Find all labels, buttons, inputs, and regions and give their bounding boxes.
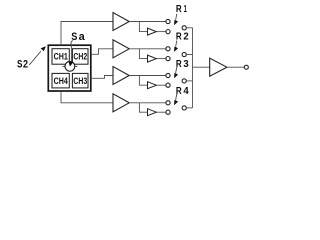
switch S1 lower contact (166, 30, 170, 34)
channel box CH4 (52, 73, 69, 88)
wire feed channel 2 (91, 49, 113, 55)
selector switch Sa outer box (48, 45, 91, 91)
switch S2a upper contact (166, 47, 170, 51)
wire A7 output (156, 84, 166, 86)
wire A6 output (156, 58, 166, 60)
output terminal (244, 65, 248, 69)
svg-text:4: 4 (183, 86, 189, 97)
switch S4 common contact (182, 106, 186, 110)
wire feed channel 3 (91, 76, 113, 79)
buffer amp A3 (113, 67, 129, 85)
svg-text:CH3: CH3 (73, 76, 87, 86)
channel box CH1 (52, 49, 69, 64)
wire S1 common to bus (186, 27, 192, 29)
switch S2a lower contact (166, 57, 170, 61)
svg-text:2: 2 (183, 32, 189, 43)
wire A3 output (129, 75, 166, 77)
wire S3 common to bus (186, 80, 192, 82)
buffer amp A6 (148, 55, 157, 62)
output amp U1 (210, 58, 227, 76)
svg-text:a: a (79, 31, 86, 43)
svg-text:CH2: CH2 (73, 52, 87, 62)
buffer amp A5 (148, 28, 157, 35)
buffer amp A8 (148, 109, 157, 116)
switch S3 upper contact (166, 73, 170, 77)
wire feed channel 1 (61, 22, 113, 46)
wire branch to A8 (139, 103, 147, 112)
Sa leader (71, 40, 73, 45)
rotary wiper right stub (75, 65, 78, 67)
buffer amp A4 (113, 94, 129, 112)
wire A4 output (129, 102, 166, 104)
wire branch to A6 (139, 49, 147, 59)
wire bus to output amp (193, 66, 210, 68)
wire A8 output (156, 111, 166, 113)
svg-text:1: 1 (184, 4, 187, 15)
wire feed channel 4 (61, 91, 113, 103)
svg-text:R: R (176, 4, 182, 15)
rotary wiper left stub (62, 65, 65, 67)
rotary wiper circle (65, 61, 75, 71)
rotary wiper pointer (69, 62, 73, 67)
wire branch to A5 (139, 22, 147, 32)
buffer amp A2 (113, 40, 129, 58)
wire A5 output (156, 31, 166, 33)
wire output (227, 66, 244, 68)
buffer amp A7 (148, 82, 157, 89)
switch S1 common contact (182, 26, 186, 30)
R1 leader arrow (174, 14, 178, 25)
wire S2a common to bus (186, 54, 192, 56)
channel box CH2 (72, 49, 88, 64)
svg-text:2: 2 (23, 59, 28, 71)
switch S1 upper contact (166, 19, 170, 23)
rotary wiper input stub (70, 45, 72, 61)
channel box CH3 (72, 73, 88, 88)
bus wire (192, 28, 194, 108)
svg-text:3: 3 (183, 59, 189, 70)
switch S2a common contact (182, 52, 186, 56)
svg-text:CH4: CH4 (54, 76, 68, 86)
switch S3 common contact (182, 79, 186, 83)
switch S3 lower contact (166, 83, 170, 87)
buffer amp A1 (113, 13, 129, 31)
R2 leader arrow (174, 41, 178, 52)
R4 leader arrow (174, 94, 178, 105)
svg-text:S: S (17, 59, 23, 71)
wire A2 output (129, 48, 166, 50)
wire branch to A7 (139, 76, 147, 86)
S2 leader arrow (29, 46, 46, 65)
wire A1 output (129, 21, 166, 23)
R3 leader arrow (174, 67, 178, 78)
switch S4 upper contact (166, 101, 170, 105)
wire S4 common to bus (186, 107, 192, 109)
svg-text:CH1: CH1 (54, 52, 68, 62)
switch S4 lower contact (166, 110, 170, 114)
